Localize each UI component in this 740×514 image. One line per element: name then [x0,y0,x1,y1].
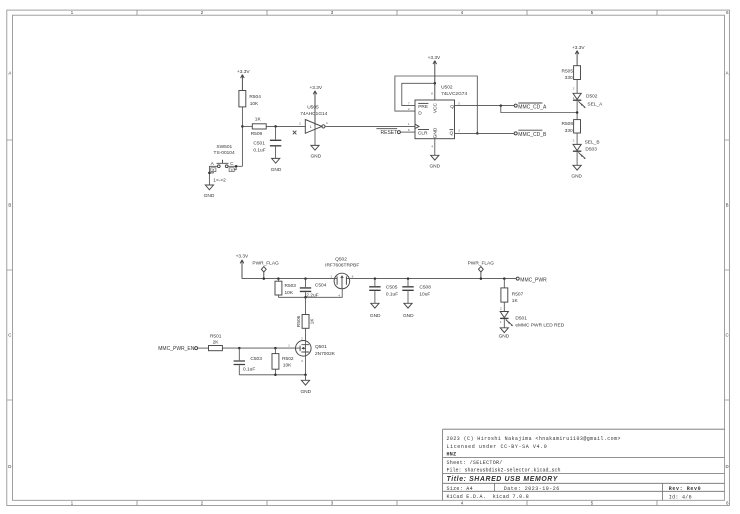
svg-text:A: A [8,71,11,76]
power +3.3V (U502) [428,55,441,100]
wire D502 to node [576,100,578,119]
svg-text:10uF: 10uF [419,291,430,297]
wire RESET to pin6 [400,131,415,133]
junction R503 top [277,277,280,280]
svg-text:7: 7 [408,101,410,105]
junction R502 top [274,347,277,350]
svg-text:5: 5 [458,101,460,105]
node MMC_PWR_EN label [158,346,197,352]
node MMC_PWR label [516,277,547,283]
svg-text:D: D [8,464,11,469]
svg-text:GND: GND [204,193,215,199]
svg-text:1: 1 [500,320,502,324]
svg-text:2K: 2K [213,340,220,346]
ground under D501 [499,328,510,340]
svg-text:D501: D501 [515,315,527,321]
wire Q pin5 to MMC_CD_A [455,105,515,107]
resistor R508 330 [562,120,581,135]
power +3.3V (U505) [309,85,322,127]
junction at C501 [274,125,277,128]
svg-text:10K: 10K [283,362,292,368]
wire gate line [278,288,342,297]
wire R508 to D503 [576,133,578,144]
svg-text:C: C [8,333,11,338]
junction loop to Q-bar wire [476,132,479,135]
svg-text:+3.3V: +3.3V [428,55,441,61]
wire bottom rail C503 to Q501 source [239,374,305,376]
svg-text:330: 330 [565,75,573,81]
svg-text:File: shareusbdisk2-selector.k: File: shareusbdisk2-selector.kicad_sch [447,468,561,474]
svg-text:Q501: Q501 [315,344,327,350]
svg-text:U505: U505 [307,105,319,111]
capacitor C504 2.2uF [300,279,327,299]
capacitor C508 10uF [402,279,431,304]
LED D503 SEL_B [573,138,600,159]
svg-text:Q: Q [450,104,454,110]
resistor R503 10K [275,279,296,298]
junction R507 top [503,277,506,280]
node RESET label [376,129,400,136]
svg-text:74AHC1G14: 74AHC1G14 [300,111,328,117]
junction switch D [235,165,238,168]
svg-text:2: 2 [500,307,502,311]
svg-text:PRE: PRE [418,104,428,110]
svg-text:IRF7606TRPBF: IRF7606TRPBF [325,263,359,269]
svg-text:D: D [418,111,422,117]
svg-text:6: 6 [408,128,410,132]
wire switch A to ground [209,166,217,185]
svg-text:PWR_FLAG: PWR_FLAG [252,261,279,267]
svg-text:Licensed under CC-BY-SA V4.0: Licensed under CC-BY-SA V4.0 [447,444,548,450]
svg-text:A: A [726,71,729,76]
wire PRE pin7 loop to VCC [402,83,435,105]
ground under switch [204,185,215,199]
junction Q501 source [304,374,307,377]
wire Q-bar pin3 to MMC_CD_B [455,132,515,134]
svg-text:2N7002K: 2N7002K [315,351,336,357]
junction C505 top [374,277,377,280]
svg-text:MMC_CD_B: MMC_CD_B [518,132,547,138]
svg-text:B: B [8,203,11,208]
svg-text:eMMC PWR LED RED: eMMC PWR LED RED [515,323,564,329]
svg-text:GND: GND [433,127,439,138]
wire node to R509 [242,125,252,127]
junction VCC/PRE loop [434,82,437,85]
title block [443,429,725,500]
wire U505 output to U502 clock [325,125,415,127]
svg-text:1K: 1K [512,298,519,304]
junction R502 bottom [274,374,277,377]
svg-text:8: 8 [431,91,433,95]
junction gate line / R506 [304,296,307,299]
svg-text:R507: R507 [512,292,524,298]
svg-text:1: 1 [408,122,410,126]
node MMC_CD_A label [514,103,547,110]
svg-text:GND: GND [300,389,311,395]
junction switch B [208,172,211,175]
svg-text:GND: GND [370,313,381,319]
wire R509 to inverter input [266,125,305,127]
svg-text:3: 3 [301,359,303,363]
svg-text:1K: 1K [309,318,315,325]
wire switch B stub [209,172,213,173]
wire label to R501 [198,347,209,349]
wire Q branch to LED node [501,106,577,113]
svg-text:Id: 4/6: Id: 4/6 [669,495,692,501]
ground under C505 [370,303,381,319]
DNP cross at U505 input [293,131,297,135]
svg-text:R502: R502 [282,356,294,362]
svg-text:Title: SHARED USB MEMORY: Title: SHARED USB MEMORY [447,476,559,483]
svg-text:GND: GND [499,334,510,340]
svg-text:R501: R501 [210,334,222,340]
svg-text:0.1uF: 0.1uF [253,147,265,153]
svg-text:PWR_FLAG: PWR_FLAG [468,261,495,267]
svg-text:Q: Q [450,131,454,137]
LED D502 SEL_A [573,86,603,108]
junction LED node [576,111,579,114]
capacitor C503 0.1uF [234,348,263,375]
svg-text:KiCad E.D.A. kicad 7.0.8: KiCad E.D.A. kicad 7.0.8 [447,494,530,500]
svg-text:Date: 2023-10-26: Date: 2023-10-26 [504,486,560,492]
resistor R509 1K [251,117,267,137]
svg-text:+3.3V: +3.3V [237,69,250,75]
wire R504 to switch node [241,107,243,166]
svg-text:B: B [213,168,215,172]
svg-text:+3.3V: +3.3V [309,85,322,91]
svg-text:2: 2 [573,86,575,90]
junction C504 top [304,277,307,280]
wire +3.3V rail [242,278,516,280]
resistor R502 10K [272,348,294,375]
wire switch D stub [234,166,236,169]
resistor R504 10K [239,91,261,107]
svg-text:R504: R504 [249,94,261,100]
svg-text:D502: D502 [586,93,598,99]
svg-text:C503: C503 [250,356,262,362]
svg-text:GND: GND [571,174,582,180]
svg-text:SEL_B: SEL_B [585,140,600,146]
junction C503 top [238,347,241,350]
ground under C501 [271,158,282,173]
junction PWR_FLAG right [480,277,483,280]
ground under D503 [571,165,582,179]
wire R505 to D502 [576,80,578,94]
power flag PWR_FLAG (right) [468,261,495,279]
svg-text:+3.3V: +3.3V [572,45,585,51]
svg-text:1<->2: 1<->2 [213,178,226,184]
node R504/R509 junction [241,125,244,128]
power flag PWR_FLAG (left) [252,261,279,279]
svg-text:D503: D503 [585,147,597,153]
svg-text:2: 2 [299,121,301,125]
svg-text:330: 330 [565,128,573,134]
svg-text:R505: R505 [562,69,574,75]
svg-text:GND: GND [310,154,321,160]
svg-text:0.1uF: 0.1uF [243,366,255,372]
svg-text:GND: GND [429,164,440,170]
junction on Q wire [500,104,503,107]
flip-flop U502 74LVC2G74 [408,85,468,149]
svg-text:GND: GND [403,313,414,319]
svg-text:1K: 1K [255,117,262,123]
svg-text:4: 4 [431,144,433,148]
svg-text:C: C [725,333,728,338]
svg-text:VCC: VCC [433,103,439,114]
capacitor C501 0.1uF [253,126,281,158]
svg-text:10K: 10K [250,101,259,107]
svg-text:10K: 10K [285,290,294,296]
power +3.3V (bottom rail) [236,253,249,278]
junction PWR_FLAG left [263,277,266,280]
svg-text:8: 8 [352,274,354,278]
wire switch C to node [228,165,242,167]
svg-text:C504: C504 [315,282,327,288]
svg-text:SEL_A: SEL_A [587,102,603,108]
svg-text:4: 4 [326,121,328,125]
svg-text:1: 1 [330,274,332,278]
capacitor C505 0.1uF [369,279,398,304]
wire D503 to ground [576,151,578,165]
resistor R501 2K [209,334,223,351]
resistor R505 330 [562,66,581,81]
ground under U505 [310,145,321,159]
LED D501 eMMC PWR LED RED [500,307,565,329]
svg-text:Size: A4: Size: A4 [447,486,473,492]
power +3.3V (LED chain) [572,45,585,65]
svg-text:HNZ: HNZ [447,452,457,458]
ground under Q501 [300,375,311,395]
svg-text:Rev: Rev0: Rev: Rev0 [669,486,701,492]
svg-text:2023 (C) Hiroshi Nakajima <hna: 2023 (C) Hiroshi Nakajima <hnakamiru1103… [447,436,621,442]
svg-text:R503: R503 [285,283,297,289]
svg-text:Sheet: /SELECTOR/: Sheet: /SELECTOR/ [447,460,503,466]
svg-text:C501: C501 [253,141,265,147]
svg-text:C505: C505 [386,285,398,291]
node MMC_CD_B label [514,130,547,138]
svg-text:MMC_PWR_EN: MMC_PWR_EN [158,346,195,352]
ground under C508 [403,303,414,319]
svg-text:3: 3 [458,129,460,133]
svg-text:1: 1 [573,96,575,100]
svg-text:RESET: RESET [381,130,398,136]
svg-text:D: D [725,464,728,469]
svg-text:B: B [726,203,729,208]
power +3.3V (top of R504) [237,69,250,90]
svg-text:R509: R509 [251,131,263,137]
svg-text:TS-00104: TS-00104 [214,150,235,156]
svg-text:D: D [231,168,233,172]
svg-text:2: 2 [408,107,410,111]
svg-text:0.1uF: 0.1uF [386,291,398,297]
svg-text:2: 2 [301,337,303,341]
svg-text:CLR: CLR [418,131,428,137]
transistor Q502 IRF7606TRPBF [325,257,359,298]
svg-text:MMC_CD_A: MMC_CD_A [518,104,547,110]
svg-text:U502: U502 [441,85,453,91]
switch SW501 TS-00104 [211,144,235,184]
resistor R507 1K [501,279,524,312]
svg-text:R508: R508 [562,121,574,127]
ground under U502 [429,139,440,170]
svg-text:C508: C508 [419,285,431,291]
svg-text:R506: R506 [296,315,302,327]
svg-text:GND: GND [271,167,282,173]
svg-text:2: 2 [573,138,575,142]
svg-text:SW501: SW501 [216,144,232,150]
resistor R506 1K [296,297,316,341]
wire R501 to Q501 gate [222,347,300,349]
svg-text:MMC_PWR: MMC_PWR [520,277,547,283]
svg-text:74LVC2G74: 74LVC2G74 [441,91,467,97]
wire D pin2 loop to Q-bar [395,76,477,133]
svg-text:Q502: Q502 [335,257,347,263]
transistor Q501 2N7002K [288,337,336,375]
svg-text:1: 1 [288,344,290,348]
wire D501 to ground [503,318,505,327]
svg-text:1: 1 [310,125,312,129]
svg-text:+3.3V: +3.3V [236,253,249,259]
op-amp U505 74AHC1G14 inverter [299,105,328,146]
svg-text:4: 4 [338,293,340,297]
junction C508 top [407,277,410,280]
